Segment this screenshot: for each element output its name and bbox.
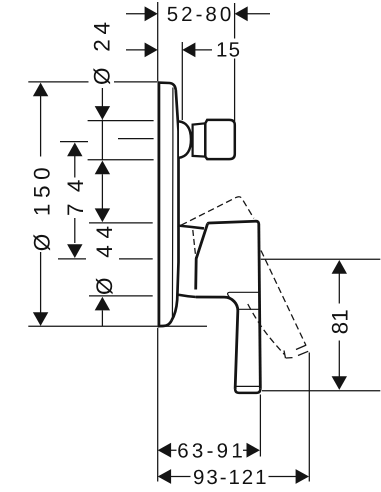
arrow: Ø44 top (down onto y=222.9): [95, 208, 110, 222]
hub bottom edge: [178, 295, 196, 297]
wire: Ø150 dimension line x=40.6: [40, 96, 42, 313]
grip bottom end: [235, 389, 260, 393]
knob sleeve bump: [179, 121, 191, 157]
wire: extension line y=159.8: [88, 159, 154, 161]
svg-text:81: 81: [327, 309, 352, 334]
svg-text:93-121: 93-121: [193, 466, 266, 489]
arrow: 74 top: [67, 143, 82, 157]
arrow: Ø150 bottom: [33, 312, 48, 326]
wire: dashed cap hook: [284, 351, 293, 359]
plate bottom edge: [158, 321, 172, 327]
arrow: 15 left: [145, 43, 158, 58]
lever handle (solid position): [196, 221, 261, 393]
handle top edge: [208, 221, 259, 224]
wire: 52-80 dimension tails: [126, 13, 270, 15]
wire: dashed grip back edge D3: [261, 251, 306, 346]
wire: extension line y=295.9: [89, 295, 153, 297]
wire: dashed hub edge (rotated): [193, 230, 197, 263]
dashed rotated handle outline: [181, 197, 254, 225]
arrow: 93-121 left: [158, 469, 171, 484]
wire: dashed grip end cap inner: [296, 345, 308, 350]
arrow: 52-80 right: [235, 6, 248, 21]
plate body fill: [158, 82, 179, 326]
knob neck: [193, 123, 206, 156]
grip cross line: [238, 308, 260, 310]
wire: grip extension line (x=260.4): [259, 395, 261, 457]
wire: 93-121 dimension line y=476.5: [171, 476, 297, 478]
wire: dashed-tip extension line (x=309.3): [308, 353, 310, 482]
svg-text:52-80: 52-80: [167, 3, 232, 26]
wire: bottom extension line y=326.3: [28, 325, 207, 327]
wire: wall extension line top (x=157.7): [157, 2, 159, 81]
arrow: 81 bottom: [332, 376, 347, 390]
wire: 81 top extension line y=259.2: [261, 258, 381, 260]
handle body+grip fill: [196, 221, 261, 393]
wire: 81 bottom extension line y=390.7: [262, 390, 380, 392]
wire: knob right extension line (x=234.6, gap at '5'): [234, 3, 236, 121]
svg-text:1 5: 1 5: [216, 38, 240, 61]
wire: Ø24/Ø44 dimension column x=102.4: [101, 88, 103, 326]
handle hub (cone on plate): [178, 226, 205, 298]
wire: 74 top extension line y=141.6: [60, 141, 88, 143]
body chamfer thin line + hook: [228, 292, 259, 305]
wire: 15 dimension tails: [126, 49, 212, 51]
wire: dashed top edge D1+D2: [181, 197, 254, 225]
wire: 81 dimension line x=339.3: [338, 274, 340, 378]
wire: dashed grip end cap outer: [298, 351, 309, 356]
plate top edge: [158, 83, 176, 90]
grip end cap line: [236, 385, 260, 387]
arrow: 63-91 left: [158, 443, 171, 458]
arrow: 81 top: [332, 260, 347, 274]
arrow: 15 right: [182, 43, 195, 58]
arrow: Ø44 bottom (up onto y=295.9): [95, 297, 110, 311]
hub top edge: [178, 226, 205, 229]
arrow: 93-121 right: [296, 469, 309, 484]
plate front face: [172, 90, 179, 321]
arrow: Ø150 top: [33, 83, 48, 97]
plate front inner line: [171, 88, 174, 321]
dashed rotated grip (drawn over solid): [193, 230, 309, 358]
handle back (right) edge: [259, 224, 261, 389]
wire: knob centre line y=138.6: [118, 138, 154, 140]
wire: 74 dimension line x=74.8: [74, 156, 76, 243]
wire: top extension line y=81.9 (gap at Ø24 text): [28, 81, 157, 83]
wire: 15 right extension line (x=182.3): [181, 42, 183, 120]
arrow: 74 bottom: [67, 244, 82, 258]
knob head: [205, 120, 235, 159]
escutcheon plate (side view): [158, 82, 179, 326]
arrow: Ø24 top (down onto y=120.6): [95, 106, 110, 120]
arrow: 52-80 left: [145, 6, 158, 21]
wire: 63-91 dimension line y=450.2: [171, 449, 247, 451]
handle left diagonal edge: [196, 224, 208, 290]
wire: wall extension line bottom (x=157.7): [157, 328, 159, 482]
arrow: 63-91 right: [247, 443, 260, 458]
wire: 74 bottom extension line y=258.9 (gap at Ø44 text): [58, 258, 153, 260]
shut-off knob assembly (top right of plate): [179, 120, 235, 159]
plate back edge (wall side): [157, 83, 160, 326]
wire: dashed grip front edge D4: [248, 304, 285, 355]
svg-text:63-91: 63-91: [177, 440, 243, 463]
svg-text:Ø 150: Ø 150: [29, 167, 54, 251]
handle body bottom edge + inner fillet: [196, 297, 238, 389]
wire: extension line y=222.9: [89, 222, 153, 224]
wire: extension line y=120.6: [88, 120, 154, 122]
arrow: Ø24 bottom / up onto y=159.8: [95, 161, 110, 175]
